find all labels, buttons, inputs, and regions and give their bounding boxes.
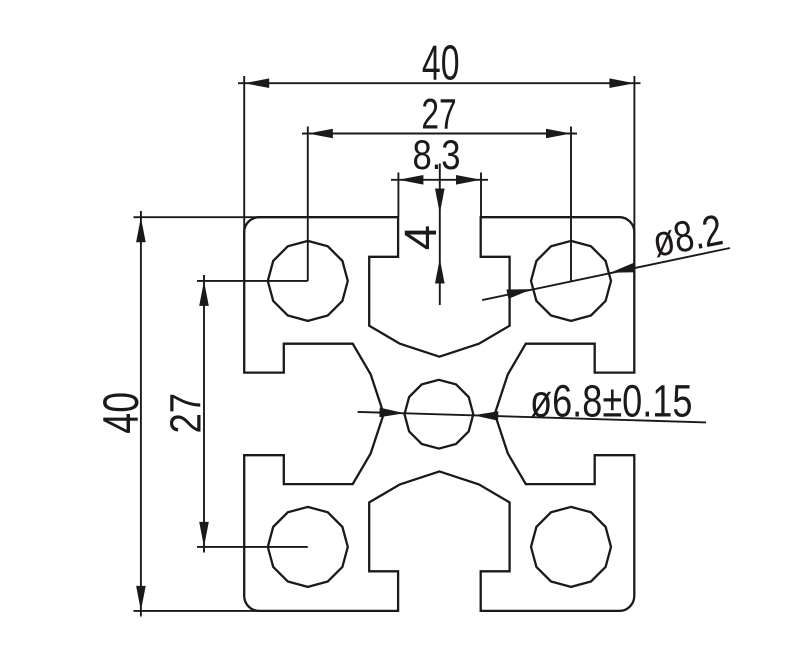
dimension 27 left: connector lines to hole centers (197, 281, 308, 547)
dimension 4: arrows (435, 189, 445, 284)
leader diameter 8.2: arrows on hole (506, 263, 635, 299)
svg-text:4: 4 (395, 225, 446, 250)
svg-text:ø6.8±0.15: ø6.8±0.15 (530, 375, 693, 426)
dimension 8.3: dimension line with arrows (391, 175, 488, 185)
dimension 4: vertical leader line (439, 164, 441, 306)
leader diameter 6.8: leader line through center hole (358, 412, 706, 423)
svg-text:27: 27 (163, 393, 211, 434)
corner hole top-right (531, 241, 611, 321)
dimension 40 left: extension lines (134, 217, 263, 611)
leader diameter 6.8: arrows on hole (379, 408, 498, 421)
dimension 40 left: dimension line with arrows (136, 211, 146, 617)
corner hole bottom-right (531, 507, 611, 587)
dimension 27 top: extension lines to hole centers (308, 127, 571, 281)
dimension 27 top: dimension line with arrows (302, 129, 577, 139)
svg-text:40: 40 (422, 36, 460, 90)
leader diameter 8.2: leader line through top-right hole (482, 248, 730, 300)
svg-text:40: 40 (93, 392, 149, 434)
corner hole top-left (268, 241, 348, 321)
profile outline (4040 extrusion cross-section) (244, 217, 634, 611)
corner hole bottom-left (268, 507, 348, 587)
svg-text:ø8.2: ø8.2 (649, 205, 727, 266)
dimension 27 left: dimension line with arrows (199, 275, 209, 553)
svg-text:8.3: 8.3 (412, 131, 460, 178)
center hole (405, 380, 474, 449)
dimension 40 top: extension lines (244, 76, 634, 240)
dimension 40 top: dimension line with arrows (238, 78, 641, 88)
dimension 8.3: extension lines (398, 173, 481, 217)
